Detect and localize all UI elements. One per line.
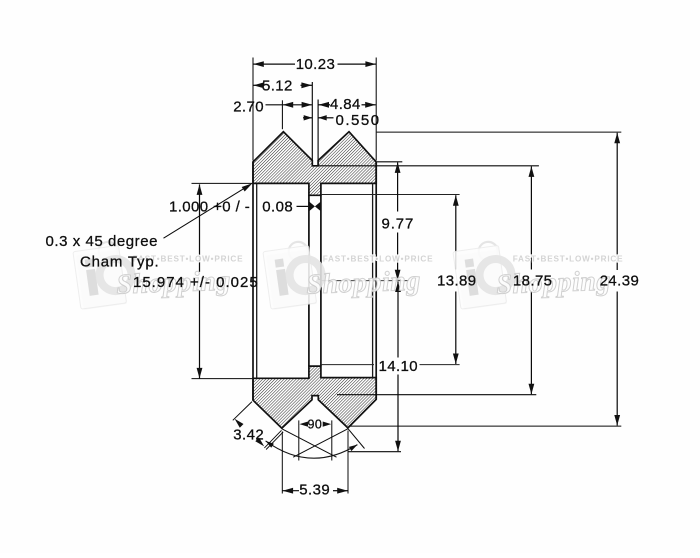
dimension 0.550 arrows and leader <box>303 117 312 119</box>
extension line groove root (18.75 top) <box>318 165 539 167</box>
dimension 24.39 line and arrows <box>616 133 618 270</box>
V tip right reference diagonal <box>348 429 365 449</box>
angle 90 arc <box>266 441 358 458</box>
dimension 2.70 leader and arrows <box>266 104 313 106</box>
bore centre line <box>321 280 409 282</box>
dimension 9.77 line and arrows <box>397 162 399 211</box>
watermark 3 <box>452 239 515 310</box>
dimension 3.42 arrow upper <box>235 419 244 428</box>
dimension 15.974 extension line top <box>192 182 253 184</box>
svg-text:2.70: 2.70 <box>233 98 264 115</box>
slot left wall <box>308 195 310 366</box>
slot right wall <box>320 195 322 366</box>
extension line bottom shoulder (18.75) <box>337 394 536 396</box>
left bore chamfer line <box>256 183 258 378</box>
svg-text:90: 90 <box>308 417 323 431</box>
chamfer note leader line <box>164 186 248 238</box>
svg-text:1.000 +0 / -: 1.000 +0 / - <box>169 198 250 215</box>
dimension 15.974 line and arrows <box>199 184 201 271</box>
svg-text:18.75: 18.75 <box>513 273 553 290</box>
bore step line lower (gap for 14.10 text) <box>321 364 374 366</box>
svg-text:FAST•BEST•LOW•PRICE: FAST•BEST•LOW•PRICE <box>323 255 434 264</box>
dimension 13.89 line and arrows <box>455 195 457 269</box>
svg-text:Cham Typ.: Cham Typ. <box>80 254 159 271</box>
svg-text:FAST•BEST•LOW•PRICE: FAST•BEST•LOW•PRICE <box>513 255 624 264</box>
bore step line upper <box>321 194 460 196</box>
dimension 10.23 extension line right <box>375 58 377 161</box>
extension line left peak <box>281 100 283 129</box>
part top block (hatched V-groove section) <box>253 132 376 196</box>
svg-text:10.23: 10.23 <box>296 56 336 73</box>
dimension 15.974 extension line bottom <box>192 378 253 380</box>
svg-text:13.89: 13.89 <box>437 273 477 290</box>
right bore chamfer line <box>372 183 374 377</box>
dimension 10.23 line and arrows <box>253 63 295 65</box>
svg-text:0.3 x 45 degree: 0.3 x 45 degree <box>46 233 159 250</box>
svg-text:0.08: 0.08 <box>262 198 293 215</box>
svg-text:24.39: 24.39 <box>600 273 640 290</box>
extension line bottom points (24.39) <box>349 425 622 427</box>
dimension 3.42 double reference line <box>264 430 281 448</box>
dimension 5.12 line and arrows <box>253 84 262 86</box>
part right outer edge <box>375 162 377 400</box>
angle 90 extension line right <box>331 420 333 460</box>
angle 90 extension line left <box>298 420 300 460</box>
svg-text:3.42: 3.42 <box>233 426 264 443</box>
extension line shoulder short (9.77) <box>377 161 402 163</box>
svg-text:9.77: 9.77 <box>382 216 415 233</box>
slit extension line right <box>317 100 319 161</box>
extension line top of peaks (24.39) <box>377 131 622 133</box>
dimension 5.39 extension line left <box>281 432 283 494</box>
dimension 10.23 extension line left <box>252 58 254 161</box>
part bottom block (hatched inverted V section) <box>253 366 376 428</box>
svg-text:14.10: 14.10 <box>379 358 419 375</box>
V flank extension cross line 1 <box>282 429 337 457</box>
svg-text:0.550: 0.550 <box>336 112 381 129</box>
slit extension line left <box>311 82 313 161</box>
dimension 3.42 extension line <box>233 402 252 421</box>
dimension 14.10 line and arrows <box>397 282 399 358</box>
svg-text:5.39: 5.39 <box>299 482 330 499</box>
dimension 4.84 line and arrows <box>318 104 330 106</box>
dimension 5.39 line and arrows <box>282 490 299 492</box>
part left outer edge <box>252 162 254 400</box>
dimension 5.39 extension line right <box>347 431 349 494</box>
svg-text:5.12: 5.12 <box>262 77 293 94</box>
dimension 3.42 arrow lower <box>255 438 264 447</box>
dimension 18.75 line and arrows <box>530 166 532 269</box>
V flank extension cross line 2 <box>293 429 348 457</box>
watermark 1 <box>72 239 135 310</box>
svg-text:Shopping: Shopping <box>306 266 422 301</box>
svg-text:4.84: 4.84 <box>330 96 361 113</box>
angle 90 arrows <box>300 422 309 427</box>
dimension 1.000 leader and bowtie arrows <box>297 205 309 207</box>
svg-text:15.974 +/- 0.025: 15.974 +/- 0.025 <box>133 274 259 291</box>
14.10 bottom reference line <box>348 451 401 453</box>
watermark 2 <box>262 239 325 310</box>
